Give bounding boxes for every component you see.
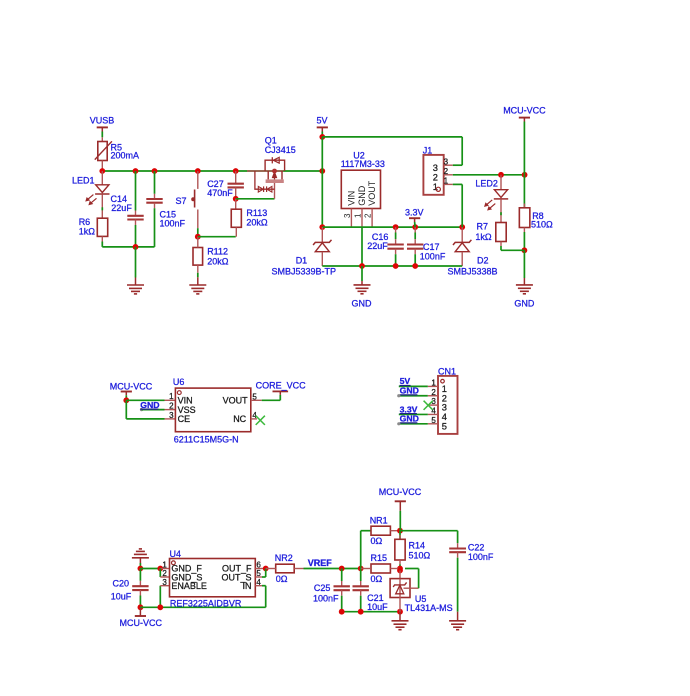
svg-text:VUSB: VUSB <box>90 116 115 126</box>
svg-text:6211C15M5G-N: 6211C15M5G-N <box>174 434 239 444</box>
svg-text:1117M3-33: 1117M3-33 <box>341 159 385 169</box>
svg-text:200mA: 200mA <box>111 151 140 161</box>
svg-text:NR1: NR1 <box>370 516 388 526</box>
svg-text:NR2: NR2 <box>275 553 293 563</box>
svg-text:22uF: 22uF <box>367 241 388 251</box>
svg-text:MCU-VCC: MCU-VCC <box>110 382 153 392</box>
svg-text:CJ3415: CJ3415 <box>265 145 296 155</box>
svg-text:R7: R7 <box>477 221 489 231</box>
svg-text:2: 2 <box>364 213 373 218</box>
svg-text:MCU-VCC: MCU-VCC <box>503 106 546 116</box>
svg-text:R15: R15 <box>371 553 388 563</box>
svg-text:20kΩ: 20kΩ <box>207 256 229 266</box>
svg-text:470nF: 470nF <box>207 188 233 198</box>
svg-text:100nF: 100nF <box>160 218 186 228</box>
svg-text:22uF: 22uF <box>111 203 132 213</box>
svg-text:1: 1 <box>162 560 167 569</box>
svg-text:ENABLE: ENABLE <box>171 581 207 591</box>
svg-text:GND: GND <box>357 185 367 206</box>
svg-text:C17: C17 <box>423 242 440 252</box>
svg-text:1kΩ: 1kΩ <box>475 232 492 242</box>
svg-text:MCU-VCC: MCU-VCC <box>120 618 163 628</box>
svg-text:GND: GND <box>514 298 535 308</box>
svg-text:CORE_VCC: CORE_VCC <box>256 381 307 391</box>
svg-text:VIN: VIN <box>346 191 356 206</box>
svg-text:CN1: CN1 <box>438 366 456 376</box>
svg-text:VOUT: VOUT <box>223 396 249 406</box>
svg-text:SMBJ5339B-TP: SMBJ5339B-TP <box>272 266 337 276</box>
svg-text:1kΩ: 1kΩ <box>79 226 96 236</box>
svg-text:TL431A-MS: TL431A-MS <box>405 603 453 613</box>
svg-text:2: 2 <box>444 167 449 176</box>
svg-text:0Ω: 0Ω <box>276 574 288 584</box>
svg-text:GND: GND <box>400 386 419 396</box>
svg-text:IN: IN <box>243 581 252 591</box>
svg-text:3: 3 <box>162 578 167 587</box>
svg-text:U6: U6 <box>173 377 185 387</box>
svg-text:2: 2 <box>431 388 436 397</box>
svg-text:1: 1 <box>169 392 174 401</box>
svg-text:1: 1 <box>353 213 362 218</box>
svg-text:1: 1 <box>444 177 449 186</box>
svg-text:GND: GND <box>140 400 159 410</box>
svg-text:100nF: 100nF <box>468 552 494 562</box>
svg-text:LED2: LED2 <box>475 179 498 189</box>
svg-text:2: 2 <box>433 173 438 183</box>
svg-text:VREF: VREF <box>308 558 333 568</box>
svg-text:510Ω: 510Ω <box>531 219 553 229</box>
svg-text:CE: CE <box>178 414 191 424</box>
svg-text:SMBJ5338B: SMBJ5338B <box>448 266 498 276</box>
svg-text:3: 3 <box>444 157 449 166</box>
svg-text:10uF: 10uF <box>111 592 132 602</box>
svg-text:4: 4 <box>431 407 436 416</box>
svg-text:S7: S7 <box>176 196 187 206</box>
svg-text:0Ω: 0Ω <box>371 574 383 584</box>
svg-text:3.3V: 3.3V <box>405 208 424 218</box>
svg-text:R112: R112 <box>207 246 228 256</box>
svg-text:5: 5 <box>431 416 436 425</box>
svg-text:20kΩ: 20kΩ <box>246 217 268 227</box>
svg-text:REF3225AIDBVR: REF3225AIDBVR <box>170 598 242 608</box>
svg-text:C25: C25 <box>314 583 331 593</box>
svg-text:3: 3 <box>433 163 438 173</box>
svg-text:LED1: LED1 <box>72 175 95 185</box>
svg-text:10uF: 10uF <box>367 602 388 612</box>
svg-text:2: 2 <box>169 402 174 411</box>
svg-text:100nF: 100nF <box>313 593 339 603</box>
svg-text:3: 3 <box>169 411 174 420</box>
svg-text:D1: D1 <box>296 255 308 265</box>
svg-text:GND: GND <box>400 414 419 424</box>
svg-text:0Ω: 0Ω <box>371 536 383 546</box>
svg-text:5: 5 <box>442 421 447 431</box>
svg-text:C20: C20 <box>113 579 130 589</box>
svg-text:R14: R14 <box>409 541 426 551</box>
svg-text:U4: U4 <box>170 549 182 559</box>
svg-text:GND: GND <box>352 298 373 308</box>
svg-text:510Ω: 510Ω <box>409 551 431 561</box>
svg-text:2: 2 <box>162 569 167 578</box>
svg-text:NC: NC <box>233 414 246 424</box>
svg-text:100nF: 100nF <box>420 251 446 261</box>
svg-text:5V: 5V <box>317 116 328 126</box>
svg-text:VOUT: VOUT <box>367 180 377 206</box>
svg-text:D2: D2 <box>477 255 489 265</box>
svg-text:MCU-VCC: MCU-VCC <box>379 487 422 497</box>
svg-text:3: 3 <box>343 213 352 218</box>
svg-text:1: 1 <box>431 379 436 388</box>
